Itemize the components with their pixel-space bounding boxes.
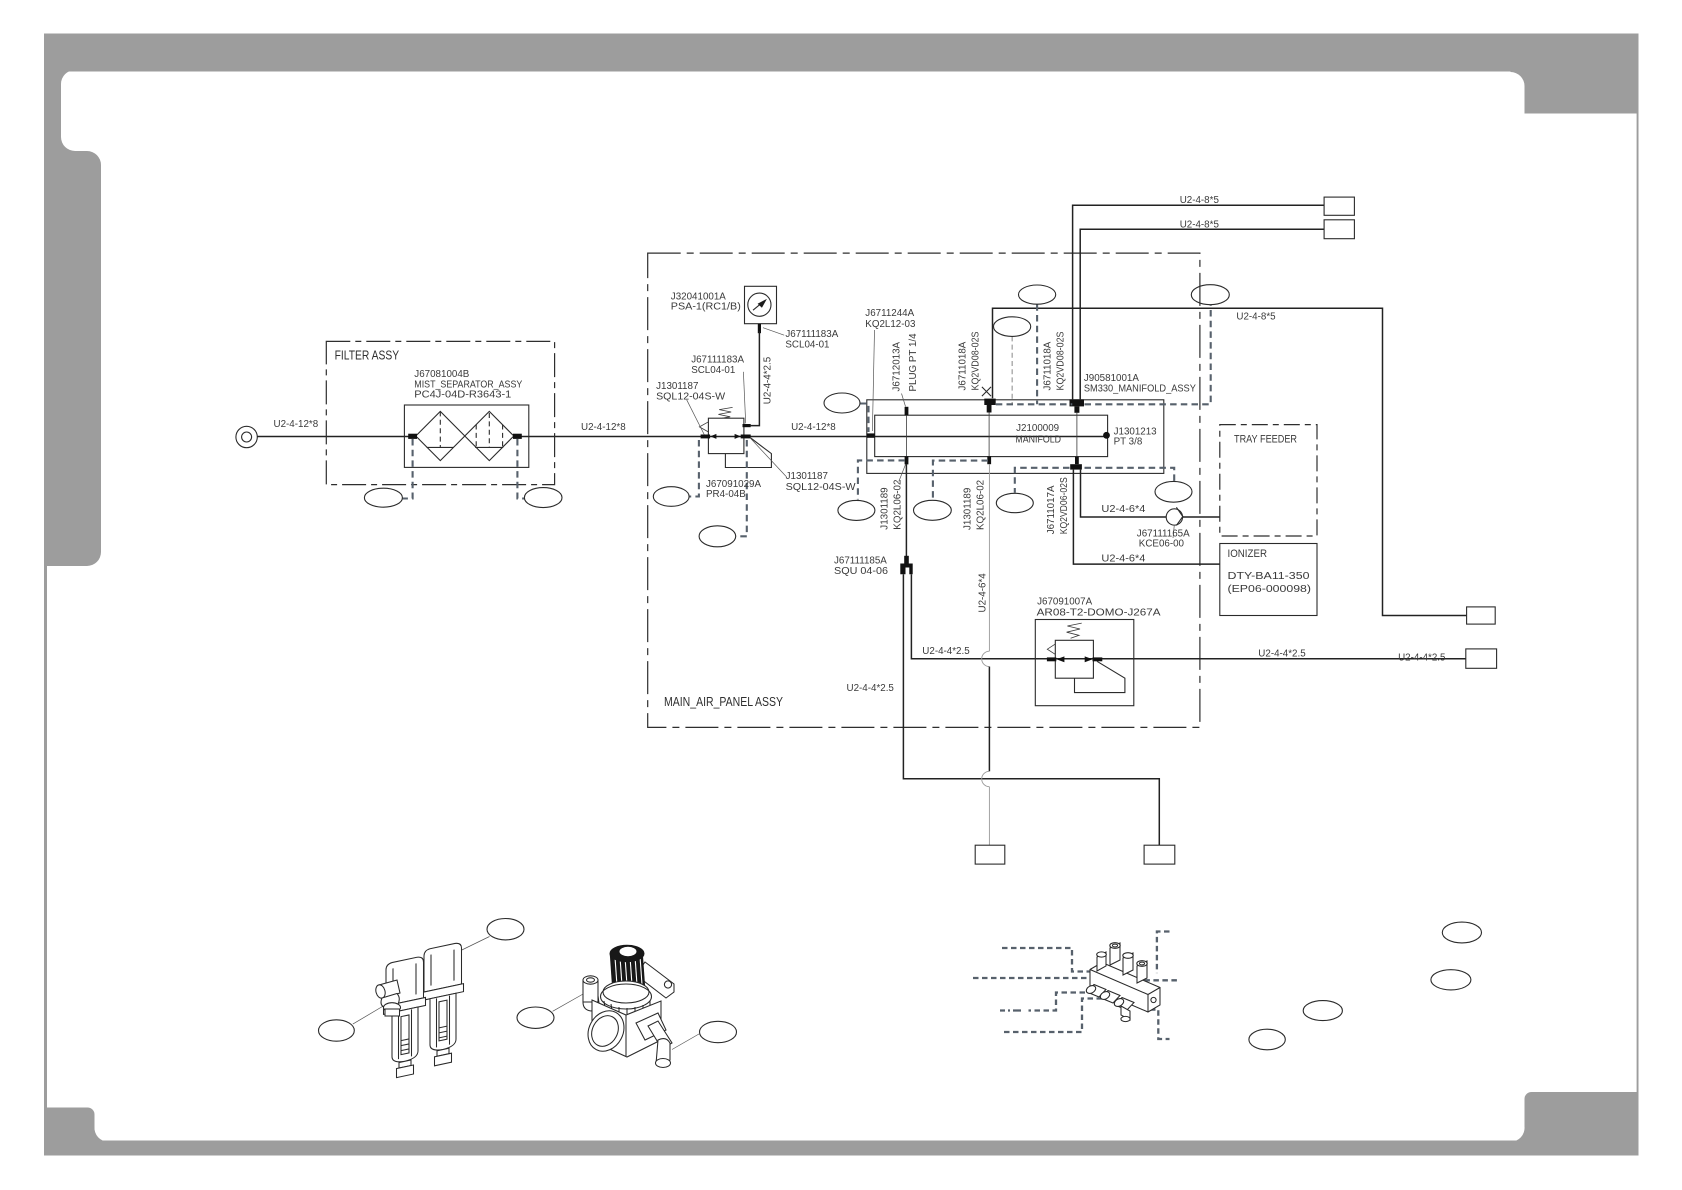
- wire union left leg down and over to terminal RB: [903, 574, 1159, 845]
- leader J1301189 v1: [899, 465, 906, 482]
- svg-text:U2-4-12*8: U2-4-12*8: [791, 422, 836, 433]
- leader KCE06-00: [1173, 526, 1174, 538]
- dashed leader regulator right port to balloon: [736, 440, 747, 536]
- svg-text:U2-4-8*5: U2-4-8*5: [1236, 311, 1276, 322]
- dashed route C: [1029, 993, 1095, 1011]
- svg-text:(EP06-000098): (EP06-000098): [1228, 584, 1312, 595]
- balloon ellipse E8: [996, 493, 1033, 512]
- svg-text:J6711017A: J6711017A: [1046, 485, 1057, 534]
- svg-text:U2-4-4*2.5: U2-4-4*2.5: [922, 646, 970, 657]
- balloon ellipse E18: [1303, 1001, 1342, 1021]
- svg-text:PT 3/8: PT 3/8: [1114, 437, 1143, 448]
- AR08 spring: [1067, 623, 1082, 638]
- svg-text:J1301187: J1301187: [786, 471, 828, 482]
- top fittings: [1097, 952, 1106, 971]
- port line 1 tick top: [905, 407, 909, 416]
- knurled knob: [610, 952, 646, 991]
- SQU union fitting J67111185A: [904, 556, 909, 564]
- svg-text:KCE06-00: KCE06-00: [1139, 539, 1185, 550]
- leader J1301187 right: [751, 438, 787, 477]
- leader E14 to filter iso elbow: [353, 1004, 388, 1025]
- balloon ellipse E13: [487, 919, 524, 940]
- svg-text:SQU 04-06: SQU 04-06: [834, 566, 889, 577]
- wire U2-4-8*5 line3 from plug up over to right box: [993, 308, 1467, 615]
- dashed leader port1 bottom to balloon E6: [858, 460, 905, 499]
- wire to ionizer vertical: [1073, 470, 1219, 564]
- manifold block body: [1090, 963, 1160, 1013]
- leader E13 to filter iso: [450, 937, 490, 957]
- mist separator right diamond element: [465, 411, 514, 460]
- balloon ellipse E14: [319, 1020, 355, 1041]
- svg-text:PSA-1(RC1/B): PSA-1(RC1/B): [671, 302, 741, 313]
- leader J6711244A: [872, 330, 874, 431]
- balloon ellipse E16: [700, 1021, 737, 1042]
- leader E15 to regulator iso: [553, 994, 584, 1012]
- balloon ellipse E15: [517, 1007, 554, 1028]
- svg-text:U2-4-6*4: U2-4-6*4: [978, 573, 989, 613]
- svg-text:J1301189: J1301189: [880, 487, 891, 529]
- svg-text:J67091007A: J67091007A: [1037, 597, 1092, 608]
- svg-text:J1301189: J1301189: [963, 488, 974, 530]
- pressure gauge J32041001A box: [745, 286, 777, 323]
- dashed leader port4 bottom left to balloon E8: [1015, 468, 1070, 493]
- svg-text:KQ2L06-02: KQ2L06-02: [976, 480, 987, 530]
- terminal rectangle RC: [1467, 607, 1496, 624]
- big front port: [581, 1004, 631, 1057]
- balloon ellipse E5: [824, 393, 860, 413]
- svg-text:U2-4-6*4: U2-4-6*4: [1101, 504, 1146, 515]
- bracket plate: [636, 962, 674, 998]
- port 2 fitting block: [984, 399, 995, 405]
- svg-text:KQ2L12-03: KQ2L12-03: [865, 319, 916, 330]
- leader lines: [687, 328, 906, 482]
- wire union right leg to U2-4-4*2.5 line to terminal RD: [911, 574, 1465, 658]
- regulator relief chevron: [699, 422, 708, 432]
- svg-text:PR4-04B: PR4-04B: [706, 489, 746, 500]
- filter inlet port tick: [408, 434, 417, 439]
- mist separator left diamond element: [416, 411, 465, 460]
- svg-text:U2-4-6*4: U2-4-6*4: [1101, 553, 1146, 564]
- collar rings: [603, 981, 649, 1003]
- regulator J67091007A AR08 outer box: [1035, 620, 1134, 706]
- svg-text:J2100009: J2100009: [1016, 423, 1059, 434]
- manifold end dot J1301213: [1103, 432, 1110, 439]
- gauge dial circle: [748, 293, 771, 316]
- balloon ellipse E19: [1431, 970, 1471, 990]
- check valve chevron: [1176, 507, 1182, 525]
- balloon ellipse E6: [838, 500, 875, 520]
- balloon ellipse E20: [1442, 922, 1481, 943]
- svg-text:U2-4-8*5: U2-4-8*5: [1180, 220, 1220, 231]
- dashed leader regulator left port to balloon: [689, 440, 699, 497]
- port line 1 tick bottom: [905, 456, 909, 464]
- manifold inlet port tick P0: [867, 433, 875, 437]
- wire port4 vertical through manifold: [1076, 413, 1078, 457]
- svg-text:J6711018A: J6711018A: [958, 341, 969, 390]
- dashed leader port4 bottom right to balloon E12: [1085, 468, 1175, 481]
- left elbow fitting: [583, 980, 598, 1002]
- svg-text:J6711018A: J6711018A: [1043, 341, 1054, 390]
- terminal rectangle RA: [975, 845, 1005, 864]
- leader reg SCL04-01: [743, 372, 745, 424]
- wire port1 vertical through manifold: [905, 415, 907, 456]
- IONIZER solid box: [1220, 544, 1317, 616]
- regulator right arrow and port bar: [735, 434, 741, 439]
- wire to tray feeder via check valve: [1081, 470, 1220, 517]
- balloon ellipse E2: [524, 488, 562, 508]
- svg-text:U2-4-4*2.5: U2-4-4*2.5: [1258, 648, 1306, 659]
- svg-text:PLUG PT 1/4: PLUG PT 1/4: [908, 333, 919, 392]
- manifold assy outer rectangle: [867, 400, 1164, 474]
- terminal rectangle RD: [1466, 649, 1497, 668]
- balloon ellipse E4: [699, 526, 736, 547]
- regulator J67091029A PR4-04B body: [708, 418, 744, 453]
- thin dashed leader balloon E10: [1011, 336, 1013, 404]
- regulator top-right gauge port bar: [743, 424, 751, 427]
- manifold J2100009 inner rectangle: [875, 415, 1108, 456]
- AR08 left port bar and arrow: [1047, 657, 1056, 661]
- AR08 relief chevron: [1047, 644, 1055, 655]
- terminal rectangle R1: [1324, 197, 1354, 215]
- balloon ellipse E7: [914, 500, 952, 520]
- svg-text:J6712013A: J6712013A: [892, 341, 903, 391]
- svg-text:U2-4-12*8: U2-4-12*8: [274, 419, 319, 430]
- svg-text:SQL12-04S-W: SQL12-04S-W: [786, 482, 857, 493]
- svg-text:DTY-BA11-350: DTY-BA11-350: [1228, 571, 1311, 582]
- body block: [592, 1000, 661, 1057]
- wire port1 down to union: [905, 464, 907, 556]
- balloon ellipse E10: [994, 317, 1031, 337]
- balloon ellipse E12: [1155, 481, 1192, 502]
- svg-text:TRAY FEEDER: TRAY FEEDER: [1234, 433, 1297, 445]
- terminal rectangle RB: [1144, 845, 1175, 864]
- rear filter unit: [422, 942, 464, 1069]
- svg-text:PC4J-04D-R3643-1: PC4J-04D-R3643-1: [414, 390, 511, 401]
- wire gauge to regulator: [751, 331, 760, 425]
- check valve J67111165A circle: [1166, 509, 1182, 525]
- dashed leader balloon E5 to P0: [860, 404, 868, 433]
- svg-text:U2-4-8*5: U2-4-8*5: [1180, 195, 1220, 206]
- svg-text:IONIZER: IONIZER: [1228, 548, 1268, 560]
- svg-text:SCL04-01: SCL04-01: [691, 365, 735, 376]
- regulator left port bar and arrow: [701, 435, 711, 439]
- mist separator isometric drawing: [374, 942, 463, 1081]
- inlet port circle: [236, 426, 257, 447]
- dashed route C stub: [1000, 1009, 1021, 1011]
- manifold SM330 isometric drawing: [973, 932, 1177, 1040]
- balloon ellipse E1: [364, 488, 402, 507]
- svg-text:FILTER ASSY: FILTER ASSY: [335, 348, 400, 363]
- balloon ellipse E3: [653, 487, 689, 507]
- svg-text:U2-4-12*8: U2-4-12*8: [581, 422, 626, 433]
- svg-text:MANIFOLD: MANIFOLD: [1015, 435, 1061, 446]
- svg-text:AR08-T2-DOMO-J267A: AR08-T2-DOMO-J267A: [1037, 607, 1162, 618]
- svg-text:KQ2VD06-02S: KQ2VD06-02S: [1059, 477, 1070, 534]
- dashed route E: [1144, 932, 1177, 981]
- wire port2 vertical through manifold: [988, 413, 990, 457]
- wire pair upper-right line to terminal R2: [1080, 229, 1324, 399]
- svg-text:KQ2L06-02: KQ2L06-02: [893, 480, 904, 530]
- AR08 right arrow and port bar: [1085, 656, 1093, 662]
- svg-text:U2-4-4*2.5: U2-4-4*2.5: [847, 683, 895, 694]
- svg-text:J6711244A: J6711244A: [865, 308, 914, 319]
- balloon ellipse E9: [1019, 285, 1056, 304]
- dashed route B: [973, 977, 1089, 979]
- leader E16 to regulator fitting: [672, 1034, 700, 1050]
- svg-text:SM330_MANIFOLD_ASSY: SM330_MANIFOLD_ASSY: [1084, 383, 1196, 394]
- regulator AR08 isometric drawing: [581, 945, 674, 1067]
- regulator spring: [718, 407, 732, 418]
- svg-text:J90581001A: J90581001A: [1084, 373, 1139, 384]
- dashed route F: [1150, 1010, 1170, 1039]
- leader J6712013A: [902, 394, 906, 407]
- TRAY FEEDER dashed box: [1220, 425, 1317, 536]
- svg-text:KQ2VD08-02S: KQ2VD08-02S: [1056, 331, 1067, 390]
- leader J1301187 left: [687, 400, 705, 435]
- gauge bottom port tick: [758, 324, 761, 334]
- port line 4 tick bottom: [1075, 457, 1079, 465]
- front filter unit: [384, 955, 426, 1080]
- gauge needle: [753, 304, 760, 310]
- balloon ellipse E17: [1249, 1029, 1285, 1050]
- svg-text:SQL12-04S-W: SQL12-04S-W: [656, 391, 726, 402]
- dashed route A: [1002, 948, 1090, 972]
- svg-text:MAIN_AIR_PANEL ASSY: MAIN_AIR_PANEL ASSY: [664, 694, 783, 709]
- wire main air line from filter to manifold dot: [517, 436, 1106, 438]
- svg-text:KQ2VD08-02S: KQ2VD08-02S: [971, 331, 982, 390]
- leader gauge SCL04-01: [763, 328, 784, 336]
- wire port2 thin vertical below manifold with hops: [988, 464, 990, 651]
- port line 2 tick bottom: [987, 456, 991, 464]
- dashed leader filter inlet to balloon: [403, 439, 413, 499]
- wire main air line from inlet to filter: [257, 436, 412, 438]
- terminal rectangle R2: [1324, 220, 1354, 239]
- filter outlet port tick: [513, 434, 522, 439]
- right port fitting: [636, 1013, 666, 1040]
- AR08 feedback loop: [1075, 661, 1125, 692]
- MAIN_AIR_PANEL ASSY dash-dot group box: [648, 253, 1200, 727]
- dashed leader top ports to balloons E9 E11: [996, 304, 1211, 404]
- AR08 regulator body: [1055, 640, 1093, 678]
- FILTER ASSY dashed group box: [326, 341, 554, 484]
- dashed leader filter outlet to balloon: [517, 439, 524, 499]
- dashed route D: [1002, 999, 1103, 1033]
- front fittings: [1087, 985, 1106, 998]
- regulator feedback loop: [725, 438, 771, 468]
- svg-text:SCL04-01: SCL04-01: [785, 340, 829, 351]
- dashed leader port2 bottom to balloon E7: [933, 461, 988, 500]
- wire pair upper-left line to terminal R1: [1073, 205, 1324, 399]
- plug X mark J6712013A: [982, 387, 991, 396]
- balloon ellipse E11: [1191, 285, 1229, 305]
- svg-text:U2-4-4*2.5: U2-4-4*2.5: [763, 356, 774, 404]
- elbow port fitting: [374, 980, 400, 1016]
- port 4 bottom fitting block: [1070, 464, 1082, 469]
- port 3-4 fitting block: [1070, 399, 1085, 406]
- svg-text:U2-4-4*2.5: U2-4-4*2.5: [1398, 653, 1446, 664]
- mist separator J67081004B outer box: [404, 405, 528, 467]
